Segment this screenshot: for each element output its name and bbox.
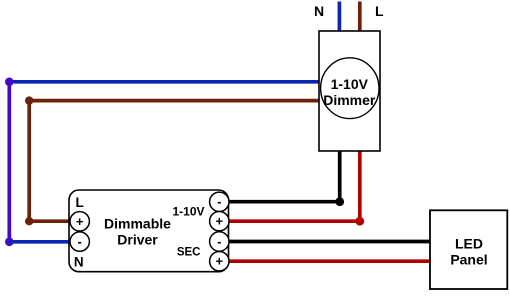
svg-text:+: + <box>76 214 84 229</box>
junction dot black <box>335 197 344 206</box>
junction dot blue bottom-left <box>5 238 14 247</box>
svg-text:Dimmer: Dimmer <box>323 92 376 108</box>
driver terminal SEC plus <box>210 252 229 271</box>
wire black from dimmer bottom down <box>338 151 342 202</box>
junction dot dark red <box>355 217 364 226</box>
svg-text:L: L <box>375 3 384 19</box>
svg-text:+: + <box>216 254 224 269</box>
dimmer U1 knob circle <box>321 58 379 119</box>
svg-text:-: - <box>217 234 221 249</box>
driver terminal SEC minus <box>210 232 229 251</box>
junction dot brown bottom <box>25 217 33 225</box>
wire black horizontal from driver 1-10V minus to junction <box>229 200 340 204</box>
wire L supply (brown) into dimmer top <box>358 2 362 32</box>
wire dark red horizontal from driver 1-10V plus to junction <box>229 219 360 223</box>
svg-text:+: + <box>216 214 224 229</box>
svg-text:Driver: Driver <box>117 231 158 247</box>
wire brown vertical left bus <box>27 101 31 222</box>
svg-text:1-10V: 1-10V <box>172 204 204 218</box>
wire blue horizontal into driver minus terminal <box>9 240 71 244</box>
svg-text:1-10V: 1-10V <box>331 76 369 92</box>
svg-text:SEC: SEC <box>177 247 201 259</box>
svg-text:-: - <box>78 234 82 249</box>
wire violet vertical left bus <box>7 82 11 242</box>
wire brown horizontal into driver plus terminal <box>29 219 71 223</box>
wire blue horizontal from left junction to dimmer <box>9 80 319 84</box>
LED panel box <box>430 210 507 289</box>
dimmer U1 box <box>319 31 380 151</box>
junction dot brown top <box>25 96 33 104</box>
driver U2 box <box>69 190 229 272</box>
junction dot blue top-left <box>5 78 14 87</box>
driver terminal 1-10V minus <box>210 192 229 211</box>
svg-text:Panel: Panel <box>450 251 487 267</box>
svg-text:L: L <box>76 195 84 210</box>
svg-text:Dimmable: Dimmable <box>104 215 171 231</box>
wire brown horizontal from left junction to dimmer <box>29 99 319 103</box>
wire black SEC minus to LED panel <box>229 240 431 244</box>
driver terminal N minus (left bottom) <box>70 232 89 251</box>
svg-text:-: - <box>217 194 221 209</box>
wire dark red from dimmer bottom down <box>358 151 362 221</box>
svg-text:N: N <box>74 255 84 270</box>
driver terminal 1-10V plus <box>210 212 229 231</box>
driver terminal L plus (left top) <box>70 212 89 231</box>
svg-text:N: N <box>314 3 324 19</box>
svg-text:LED: LED <box>455 235 483 251</box>
wire N supply (blue) into dimmer top <box>338 2 342 32</box>
wire dark red SEC plus to LED panel <box>229 259 431 263</box>
